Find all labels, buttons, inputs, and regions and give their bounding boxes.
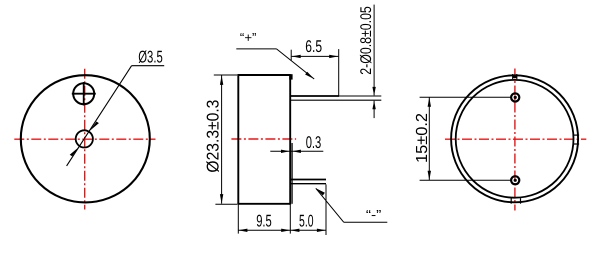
svg-text:15±0.2: 15±0.2 xyxy=(414,113,431,163)
svg-text:Ø23.3±0.3: Ø23.3±0.3 xyxy=(204,100,223,173)
svg-text:6.5: 6.5 xyxy=(305,37,322,56)
svg-text:Ø3.5: Ø3.5 xyxy=(138,48,163,67)
svg-text:0.3: 0.3 xyxy=(306,133,322,152)
svg-text:“-”: “-” xyxy=(366,207,382,222)
svg-text:“+”: “+” xyxy=(240,30,257,45)
svg-text:9.5: 9.5 xyxy=(256,212,272,231)
svg-text:5.0: 5.0 xyxy=(299,212,314,231)
svg-text:2-Ø0.8±0.05: 2-Ø0.8±0.05 xyxy=(358,6,375,75)
